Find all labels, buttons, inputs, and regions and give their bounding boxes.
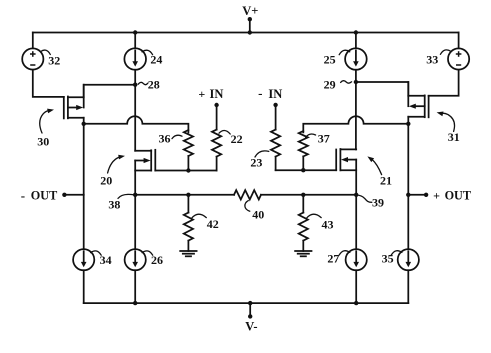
wire VS33 to Q31 gate bbox=[429, 70, 459, 96]
V- terminal bbox=[245, 301, 257, 334]
label 36 bbox=[159, 132, 183, 146]
wire Q30 source to R36 with hop bbox=[84, 116, 189, 132]
svg-text:37: 37 bbox=[318, 131, 330, 145]
current source 24 bbox=[124, 48, 146, 70]
junction dot R43 top bbox=[301, 193, 305, 197]
transistor Q31 bbox=[408, 82, 428, 117]
label 27 bbox=[327, 251, 349, 266]
svg-text:34: 34 bbox=[100, 253, 112, 267]
wire node 28 to Q20 drain bbox=[134, 85, 136, 151]
svg-text:42: 42 bbox=[207, 217, 219, 231]
svg-text:V+: V+ bbox=[242, 4, 258, 18]
label 32 bbox=[41, 50, 61, 67]
junction dot R37 bottom bbox=[301, 168, 305, 172]
svg-text:38: 38 bbox=[108, 197, 120, 211]
node -IN bbox=[258, 86, 282, 107]
svg-text:36: 36 bbox=[159, 132, 171, 146]
label 43 bbox=[307, 214, 334, 231]
junction dot R42 top bbox=[186, 193, 190, 197]
svg-text:25: 25 bbox=[324, 53, 336, 67]
current source 25 bbox=[345, 48, 367, 70]
wire Q20 gate lead bbox=[155, 170, 216, 172]
svg-text:-: - bbox=[21, 188, 25, 203]
resistor R23 bbox=[271, 130, 280, 171]
svg-text:40: 40 bbox=[252, 208, 264, 222]
wire +OUT col to CS35 bbox=[407, 195, 409, 249]
voltage source 32 bbox=[22, 48, 43, 69]
wire Q31 source to R37 with hop bbox=[303, 116, 408, 132]
wire Q30 drain to node 28 bbox=[84, 85, 136, 98]
svg-text:30: 30 bbox=[37, 134, 49, 148]
svg-text:26: 26 bbox=[151, 253, 163, 267]
junction dot R36 bottom bbox=[186, 168, 190, 172]
transistor Q20 bbox=[135, 150, 155, 195]
svg-text:-: - bbox=[258, 86, 262, 101]
svg-text:+: + bbox=[433, 188, 440, 202]
wire CS24 to node 28 bbox=[134, 70, 136, 85]
junction dot bottom col 27 bbox=[354, 301, 358, 305]
svg-text:20: 20 bbox=[100, 173, 112, 187]
ground below R42 bbox=[180, 251, 196, 256]
wire rail to VS32 bbox=[32, 33, 34, 49]
svg-text:IN: IN bbox=[210, 87, 224, 101]
voltage source 33 bbox=[448, 48, 469, 69]
junction dot V+ on rail bbox=[248, 30, 252, 34]
resistor R36 bbox=[184, 130, 193, 171]
label 37 bbox=[306, 131, 330, 145]
resistor R37 bbox=[299, 131, 308, 170]
wire -OUT bbox=[64, 194, 83, 196]
wire -OUT col to CS34 bbox=[83, 195, 85, 249]
wire node 29 to Q21 drain bbox=[355, 82, 357, 149]
svg-text:21: 21 bbox=[380, 173, 392, 187]
wire node39 to CS27 bbox=[355, 195, 357, 249]
wire node38 rail left bbox=[135, 194, 234, 196]
node 28 bbox=[133, 77, 160, 91]
V+ terminal bbox=[242, 4, 258, 32]
wire +OUT bbox=[408, 194, 426, 196]
wire CS35 to bottom rail bbox=[407, 270, 409, 303]
resistor R22 bbox=[212, 130, 221, 171]
svg-text:29: 29 bbox=[324, 78, 336, 92]
svg-text:27: 27 bbox=[327, 252, 339, 266]
wire +IN to R22 bbox=[216, 105, 218, 130]
node 38 bbox=[108, 193, 137, 212]
current source 27 bbox=[346, 249, 367, 270]
wire CS26 to bottom rail bbox=[134, 270, 136, 303]
svg-text:32: 32 bbox=[48, 54, 60, 68]
label 23 bbox=[250, 151, 268, 170]
label 34 bbox=[91, 251, 112, 267]
label 31 bbox=[437, 112, 460, 145]
wire Q30 source down bbox=[83, 118, 85, 195]
current source 35 bbox=[398, 249, 419, 270]
svg-text:23: 23 bbox=[250, 155, 262, 169]
svg-text:OUT: OUT bbox=[445, 188, 471, 202]
junction dot bottom col 26 bbox=[133, 301, 137, 305]
wire node39 rail right bbox=[261, 194, 356, 196]
label 30 bbox=[37, 109, 54, 149]
svg-text:33: 33 bbox=[426, 53, 438, 67]
wire VS32 to Q30 gate bbox=[33, 70, 64, 97]
svg-text:39: 39 bbox=[372, 196, 384, 210]
wire Q31 drain to node 29 bbox=[356, 82, 408, 96]
label 25 bbox=[324, 50, 350, 66]
node +OUT bbox=[424, 188, 471, 202]
label 26 bbox=[142, 251, 163, 267]
wire rail to CS24 bbox=[134, 33, 136, 49]
svg-text:IN: IN bbox=[268, 87, 282, 101]
wire Q21 gate lead bbox=[276, 169, 337, 171]
wire node38 to CS26 bbox=[134, 195, 136, 249]
svg-text:22: 22 bbox=[231, 132, 243, 146]
transistor Q30 bbox=[64, 85, 84, 119]
junction dot rail col 24 bbox=[133, 30, 137, 34]
wire top rail bbox=[33, 32, 459, 34]
svg-text:OUT: OUT bbox=[31, 188, 57, 202]
label 35 bbox=[382, 251, 402, 266]
transistor Q21 bbox=[336, 149, 356, 195]
node 29 bbox=[324, 78, 358, 92]
svg-text:+: + bbox=[198, 87, 205, 101]
node +IN bbox=[198, 87, 223, 107]
svg-text:31: 31 bbox=[448, 130, 460, 144]
node -OUT bbox=[21, 188, 67, 203]
ground below R43 bbox=[295, 251, 311, 256]
wire CS25 to node 29 bbox=[355, 70, 357, 82]
label 40 bbox=[245, 201, 264, 222]
resistor R40 bbox=[234, 190, 261, 199]
label 42 bbox=[192, 214, 219, 231]
node 39 bbox=[354, 193, 384, 210]
wire Q31 source down bbox=[407, 117, 409, 195]
junction dot Q31 source bbox=[406, 122, 410, 126]
current source 26 bbox=[125, 249, 146, 270]
label 22 bbox=[219, 130, 243, 146]
wire rail to VS33 bbox=[458, 33, 460, 49]
wire rail to CS25 bbox=[355, 33, 357, 49]
wire bottom rail bbox=[84, 302, 409, 304]
wire -IN to R23 bbox=[275, 105, 277, 130]
wire CS27 to bottom rail bbox=[355, 270, 357, 303]
resistor R43 bbox=[299, 195, 308, 251]
svg-text:V-: V- bbox=[245, 319, 257, 333]
label 20 bbox=[100, 155, 125, 188]
junction dot rail col 25 bbox=[354, 30, 358, 34]
current source 34 bbox=[73, 249, 94, 270]
wire CS34 to bottom rail bbox=[83, 270, 85, 303]
label 33 bbox=[426, 50, 451, 67]
junction dot Q30 source bbox=[82, 122, 86, 126]
svg-text:24: 24 bbox=[150, 53, 162, 67]
svg-text:28: 28 bbox=[148, 77, 160, 91]
label 21 bbox=[367, 156, 392, 187]
junction dot +OUT column bbox=[406, 193, 410, 197]
label 24 bbox=[142, 50, 162, 66]
svg-text:43: 43 bbox=[322, 218, 334, 232]
resistor R42 bbox=[184, 195, 193, 251]
svg-text:35: 35 bbox=[382, 252, 394, 266]
